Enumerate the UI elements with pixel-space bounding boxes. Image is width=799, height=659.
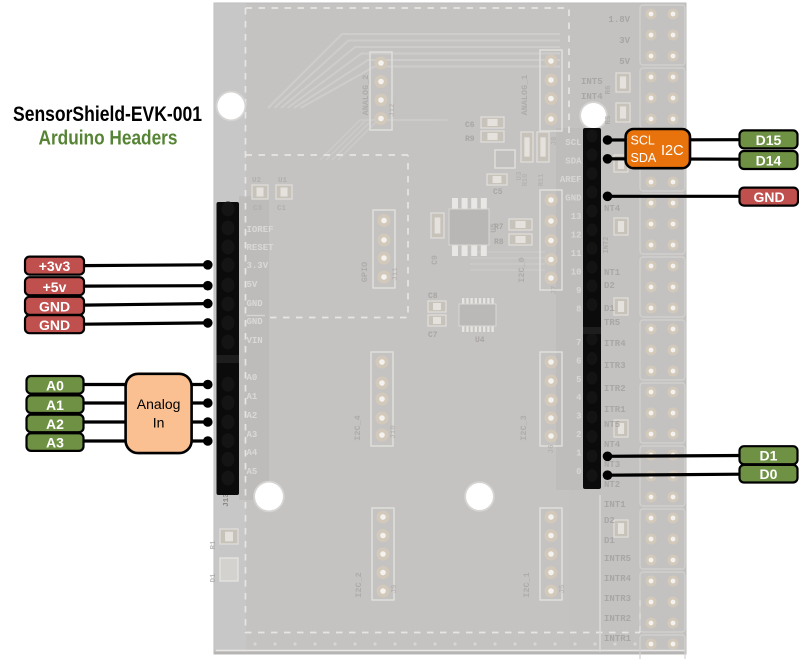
svg-text:NT1: NT1 [604,268,621,278]
svg-text:SCL: SCL [631,134,655,148]
svg-text:5V: 5V [247,280,258,290]
svg-text:U2: U2 [252,177,262,185]
svg-text:SDA: SDA [565,157,582,167]
svg-text:INTR3: INTR3 [604,594,631,604]
svg-text:RESET: RESET [247,243,275,253]
svg-text:D1: D1 [604,536,615,546]
svg-text:A3: A3 [46,435,64,451]
svg-text:I2C_4: I2C_4 [353,415,363,441]
svg-text:D1: D1 [760,448,778,464]
svg-text:A3: A3 [247,430,258,440]
svg-text:J7: J7 [551,285,559,294]
svg-text:In: In [153,415,165,431]
svg-text:R11: R11 [538,174,546,187]
svg-text:GND: GND [565,194,582,204]
svg-text:ITR3: ITR3 [604,361,626,371]
svg-text:GND: GND [39,298,70,314]
svg-text:TR5: TR5 [604,318,620,328]
svg-text:I2C_2: I2C_2 [354,572,364,598]
svg-text:A2: A2 [247,411,258,421]
svg-text:D1: D1 [210,573,218,583]
svg-text:NT5: NT5 [604,420,620,430]
svg-text:R1: R1 [210,540,218,550]
svg-text:13: 13 [571,212,582,222]
svg-text:3V: 3V [619,36,630,46]
svg-text:D15: D15 [756,132,782,148]
svg-text:INT2: INT2 [603,237,611,254]
svg-text:NT4: NT4 [604,440,621,450]
svg-text:D2: D2 [604,281,615,291]
svg-text:SCL: SCL [565,138,581,148]
svg-text:C7: C7 [428,331,438,340]
svg-text:1: 1 [576,448,582,458]
svg-text:D1: D1 [604,304,615,314]
svg-text:12: 12 [571,231,582,241]
svg-text:J12: J12 [389,103,397,117]
svg-text:C5: C5 [493,188,503,197]
svg-text:C6: C6 [465,121,475,130]
svg-text:D2: D2 [604,516,615,526]
svg-text:C1: C1 [277,205,287,213]
svg-text:D14: D14 [756,153,782,169]
svg-text:I2C_3: I2C_3 [519,415,529,441]
svg-text:SensorShield-EVK-001: SensorShield-EVK-001 [13,102,202,126]
svg-text:2: 2 [576,430,581,440]
svg-text:I2C_0: I2C_0 [517,257,527,283]
svg-text:ITR2: ITR2 [604,384,626,394]
svg-text:A1: A1 [46,397,64,413]
svg-text:C3: C3 [253,205,263,213]
svg-text:+5v: +5v [43,279,67,295]
svg-text:C8: C8 [428,292,438,301]
svg-text:GND: GND [39,317,70,333]
svg-text:5: 5 [576,375,581,385]
svg-text:INTR4: INTR4 [604,574,632,584]
svg-text:IOREF: IOREF [247,225,274,235]
svg-text:A4: A4 [247,448,258,458]
svg-text:NT3: NT3 [604,460,620,470]
svg-text:C9: C9 [431,255,440,265]
svg-text:R6: R6 [605,85,613,95]
svg-text:9: 9 [576,286,581,296]
svg-text:INT5: INT5 [581,77,603,87]
svg-text:10: 10 [571,268,582,278]
svg-text:A0: A0 [46,377,64,393]
svg-text:U4: U4 [475,336,485,345]
svg-text:J9: J9 [391,584,399,594]
svg-text:3: 3 [576,412,581,422]
svg-text:R9: R9 [465,135,475,144]
svg-text:11: 11 [571,249,582,259]
svg-text:INT1: INT1 [604,500,626,510]
svg-text:5V: 5V [619,57,630,67]
svg-text:INT4: INT4 [581,92,603,102]
svg-text:J8: J8 [551,136,559,146]
svg-text:A5: A5 [247,467,258,477]
svg-text:NT2: NT2 [604,480,620,490]
svg-text:6: 6 [576,356,581,366]
svg-text:INTR1: INTR1 [604,634,632,644]
svg-text:AREF: AREF [560,175,582,185]
svg-text:J11: J11 [392,267,400,281]
svg-text:R5: R5 [605,115,613,125]
svg-text:+3v3: +3v3 [39,258,71,274]
svg-text:INTR5: INTR5 [604,554,631,564]
svg-text:GND: GND [753,189,784,205]
svg-text:Arduino Headers: Arduino Headers [39,128,178,150]
svg-text:U3: U3 [516,171,524,181]
svg-text:GND: GND [247,299,264,309]
svg-text:NT4: NT4 [604,204,621,214]
svg-text:7: 7 [576,338,581,348]
svg-text:4: 4 [576,393,582,403]
svg-text:D0: D0 [760,466,778,482]
svg-text:A0: A0 [247,373,258,383]
svg-text:INTR2: INTR2 [604,614,631,624]
svg-text:A1: A1 [247,392,258,402]
svg-text:3.3V: 3.3V [247,261,269,271]
svg-text:J6: J6 [548,444,556,454]
svg-text:GND: GND [247,317,264,327]
svg-text:GPIO: GPIO [360,262,370,282]
svg-text:R8: R8 [494,238,504,247]
svg-text:Analog: Analog [137,396,181,412]
svg-text:ITR4: ITR4 [604,339,626,349]
svg-text:8: 8 [576,305,581,315]
svg-text:R7: R7 [494,223,504,232]
svg-text:1.8V: 1.8V [608,15,630,25]
svg-text:ITR1: ITR1 [604,405,626,415]
svg-text:J5: J5 [559,584,567,594]
svg-text:ANALOG_1: ANALOG_1 [520,75,530,116]
svg-text:0: 0 [576,467,581,477]
svg-text:SDA: SDA [631,151,657,165]
svg-text:VIN: VIN [247,336,263,346]
svg-text:I2C_1: I2C_1 [522,572,532,598]
svg-text:A2: A2 [46,416,64,432]
svg-text:I2C: I2C [661,143,684,159]
svg-text:U1: U1 [278,177,288,185]
svg-text:J10: J10 [390,425,398,439]
svg-text:ANALOG_2: ANALOG_2 [361,75,371,116]
